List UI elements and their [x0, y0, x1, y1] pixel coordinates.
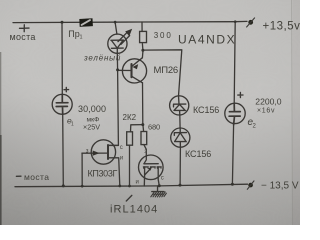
wire emitter node to zener branch corner [143, 50, 182, 96]
wire MP26 emitter lead [141, 50, 144, 58]
svg-text:1: 1 [71, 122, 74, 128]
wire JFET source lead [108, 158, 120, 186]
node bottom C1 [62, 184, 65, 187]
wire MP26 collector lead [142, 83, 144, 125]
svg-text:с: с [120, 145, 123, 151]
wire base node down to JFET drain [108, 70, 118, 146]
node collector/resistors [141, 123, 144, 126]
svg-text:зелёный: зелёный [83, 54, 121, 63]
svg-text:МП26: МП26 [154, 65, 179, 76]
transistor Q1 MP26 [122, 58, 146, 83]
node base/LED [116, 68, 119, 71]
wire collector node jog to 2K2 [131, 125, 143, 132]
wire top rail to arrow [235, 20, 247, 22]
svg-text:+13,5v: +13,5v [263, 21, 301, 33]
resistor R3 680 [141, 132, 147, 145]
wire MP26 base lead [118, 69, 132, 71]
wire C1 branch lower [62, 114, 65, 186]
svg-text:з: з [86, 149, 89, 155]
svg-text:UA4NDX: UA4NDX [178, 33, 236, 47]
fuse Pr1 [80, 19, 93, 27]
node bottom JFET source [118, 185, 121, 188]
ground [151, 186, 167, 197]
capacitor C1 30000uF [52, 87, 72, 114]
node bottom zener [179, 184, 182, 187]
svg-text:×25V: ×25V [83, 122, 100, 131]
svg-text:з: з [144, 149, 147, 155]
LED D1 green [108, 29, 132, 54]
wire C1 branch upper [61, 22, 63, 94]
node top C2 corner [234, 20, 237, 23]
svg-text:с: с [161, 176, 164, 182]
capacitor C2 2200uF [225, 92, 245, 124]
zener VD2 KS156 [171, 128, 190, 147]
node top C1 tap [61, 21, 64, 24]
minus sign bridge input [16, 175, 21, 177]
svg-text:1: 1 [80, 35, 83, 41]
svg-text:и: и [136, 180, 139, 186]
wire 680 to MOSFET gate [144, 145, 147, 164]
svg-text:×16v: ×16v [257, 108, 275, 115]
svg-text:− 13,5 V: − 13,5 V [261, 181, 299, 192]
transistor Q3 IRL1404 MOSFET [139, 155, 164, 186]
wire 300 resistor bottom lead [141, 44, 144, 51]
svg-text:КС156: КС156 [185, 149, 211, 159]
wire C2 branch upper [234, 22, 235, 104]
svg-text:Пр: Пр [68, 29, 79, 39]
leader line IRL1404 [126, 195, 132, 201]
svg-text:iRL1404: iRL1404 [110, 204, 158, 216]
wire C2 branch lower [232, 125, 233, 185]
svg-text:680: 680 [148, 123, 160, 132]
wire between zeners [179, 115, 181, 128]
output arrow +13.5V [247, 18, 255, 27]
wire 2K2 bottom lead [129, 145, 131, 186]
svg-text:КС156: КС156 [193, 105, 219, 115]
zener VD1 KS156 [170, 96, 189, 115]
wire 680 top lead [142, 125, 145, 132]
svg-text:30,000: 30,000 [78, 104, 106, 114]
output arrow -13.5V [247, 181, 254, 189]
svg-text:300: 300 [154, 31, 173, 40]
svg-text:2К2: 2К2 [123, 113, 137, 122]
node bottom JFET gate [81, 185, 84, 188]
wire LED cathode to base node [116, 53, 118, 70]
wire JFET gate branch [82, 153, 107, 186]
svg-text:2200,0: 2200,0 [255, 97, 282, 107]
wire bottom rail [15, 184, 248, 187]
svg-text:моста: моста [10, 32, 36, 42]
resistor R2 2K2 [127, 132, 133, 145]
node bottom MOSFET drain [158, 184, 161, 187]
plus sign bridge input [20, 25, 30, 32]
svg-text:моста: моста [24, 172, 49, 182]
wire 300 resistor top lead [141, 22, 143, 32]
wire zener2 to bottom rail [179, 147, 181, 185]
wire top rail [13, 21, 235, 24]
svg-text:и: и [120, 156, 123, 162]
node bottom C2 [231, 183, 234, 186]
wire LED anode [115, 22, 117, 34]
transistor Q2 KP303G JFET [91, 140, 118, 164]
node emitter/300 [141, 49, 144, 52]
resistor R1 300 [140, 31, 147, 42]
node bottom 2K2 [128, 185, 131, 188]
node top LED tap [114, 21, 117, 24]
svg-text:КП303Г: КП303Г [88, 169, 118, 179]
